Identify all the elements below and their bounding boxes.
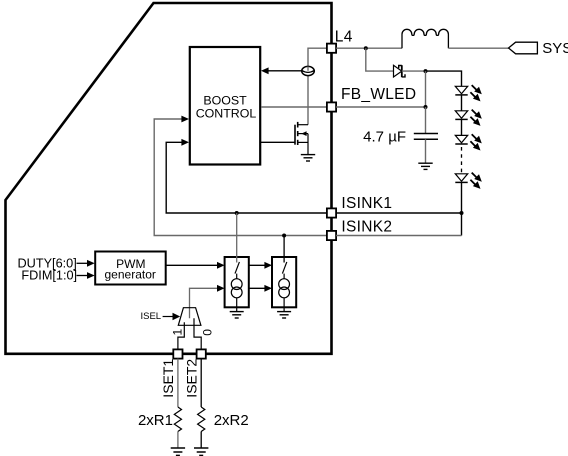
svg-text:ISET1: ISET1 [160,359,176,398]
wire resistor R1 to ground [177,432,179,448]
svg-text:ISEL: ISEL [141,311,162,322]
resistor R1 [174,407,181,432]
block U2 BOOST CONTROL [190,47,260,165]
wire ISET1 pin to resistor R1 [177,359,179,407]
svg-text:ISINK2: ISINK2 [341,219,392,236]
wire PWM output to current sink 1 [166,262,225,269]
node ISINK1 junction [235,211,239,215]
wire current sense to BOOST CONTROL arrow [261,67,302,74]
wire mux input 0 leg to ISET2 pin [194,318,201,349]
wire L4 junction down to diode D1 [366,48,394,71]
transistor Q1 NMOS [295,122,308,155]
diode D1 schottky [394,65,406,77]
svg-text:SYS: SYS [542,40,568,57]
wire ISINK2 pin to LED string [336,235,461,237]
wire LED D3 to LED D4 [461,119,463,135]
wire current sink 1 to current sink 2 lower arrow [249,285,272,292]
current sense probe [302,66,315,75]
wire dashed LED D4 to LED D5 [461,147,463,173]
pin ISINK2 [327,231,336,240]
wire inductor to SYS connector [448,47,508,49]
wire L4 pin to inductor and SYS [336,47,402,49]
wire gate drive from BOOST CONTROL to MOSFET [261,141,295,143]
ground under C1 [418,163,432,169]
SYS connector [509,42,538,54]
ground under Q1 [301,155,315,161]
svg-text:ISINK1: ISINK1 [341,195,392,212]
wire current sink 1 to current sink 2 upper arrow [249,262,272,269]
svg-text:FDIM[1:0]: FDIM[1:0] [21,268,77,282]
wire mux output up to current sink 1 lower input [190,285,225,318]
wire mux input 1 leg to ISET1 pin [178,322,184,349]
wire junction to LED string top [426,71,462,86]
svg-text:generator: generator [105,268,156,282]
wire ISET2 pin to resistor R2 [200,359,202,407]
capacitor C1 [414,134,438,140]
svg-text:2xR1: 2xR1 [138,412,173,429]
current sink 1 [225,257,249,312]
pin L4 [327,44,336,53]
wire ISINK2 junction down to current sink 2 [283,236,285,258]
wire ISINK1 net: pin to feedback into BOOST CONTROL [166,139,331,213]
svg-text:ISET2: ISET2 [184,359,200,398]
ground under current sink 1 [230,312,244,318]
svg-text:L4: L4 [335,28,353,45]
block U3 PWM generator [95,252,166,285]
wire FB_WLED node to capacitor C1 [425,107,427,133]
wire FB_WLED pin to capacitor node [336,106,425,108]
pin ISET1 [173,349,182,358]
wire capacitor C1 to ground [425,139,427,163]
LED D5 [455,173,482,189]
LED D3 [455,110,482,126]
node diode output junction [424,69,428,73]
LED D2 [455,85,482,101]
wire ISINK1 pin to LED string [336,212,461,214]
pin ISINK1 [327,208,336,217]
LED D4 [455,134,482,150]
svg-text:BOOST: BOOST [203,94,247,108]
ground under R2 [194,448,208,455]
node L4 junction [364,46,368,50]
svg-text:4.7 µF: 4.7 µF [363,128,406,145]
inductor L1 [402,29,448,48]
current sink 2 [272,257,296,312]
wire DUTY input arrow [77,260,95,267]
svg-text:0: 0 [201,329,215,336]
node LED string to ISINK junction [460,211,464,215]
ground under current sink 2 [277,312,291,318]
svg-text:FB_WLED: FB_WLED [341,86,416,103]
wire L4 pin to current sense and MOSFET drain [308,48,332,125]
ground under R1 [171,448,185,455]
wire junction down to FB_WLED node [425,71,427,107]
wire diode D1 to junction [402,70,426,72]
wire LED D5 down to ISINK wires [461,182,463,235]
svg-text:1: 1 [171,329,185,336]
wire FDIM input arrow [77,272,95,279]
svg-text:CONTROL: CONTROL [196,107,257,121]
resistor R2 [198,407,205,432]
wire ISEL input arrow [163,313,181,321]
chip outline U1 [6,3,332,354]
node ISINK2 junction [282,234,286,238]
mux M1 trapezoid [178,308,201,326]
wire resistor R2 to ground [200,432,202,448]
wire FB_WLED from BOOST CONTROL to pin [261,106,332,108]
wire ISINK1 junction down to current sink 1 [236,213,238,257]
svg-text:2xR2: 2xR2 [214,412,249,429]
node FB_WLED junction [424,105,428,109]
pin ISET2 [197,349,206,358]
wire ISINK2 net: pin to feedback into BOOST CONTROL [154,116,331,236]
wire LED D2 to LED D3 [461,95,463,111]
pin FB_WLED [327,102,336,111]
